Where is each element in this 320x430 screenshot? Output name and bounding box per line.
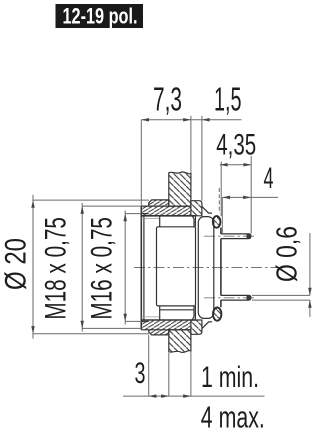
svg-text:4,35: 4,35 [216,129,256,162]
svg-text:1,5: 1,5 [214,82,242,119]
svg-text:1 min.: 1 min. [201,361,259,394]
svg-text:4 max.: 4 max. [201,399,265,430]
svg-text:M16 x 0,75: M16 x 0,75 [86,217,119,320]
svg-text:Ø 20: Ø 20 [0,238,33,290]
svg-text:4: 4 [264,162,274,195]
svg-text:7,3: 7,3 [153,82,182,119]
svg-text:3: 3 [135,357,146,390]
svg-text:Ø 0,6: Ø 0,6 [272,226,304,282]
svg-text:M18 x 0,75: M18 x 0,75 [40,217,73,320]
svg-text:12-19 pol.: 12-19 pol. [63,4,138,29]
